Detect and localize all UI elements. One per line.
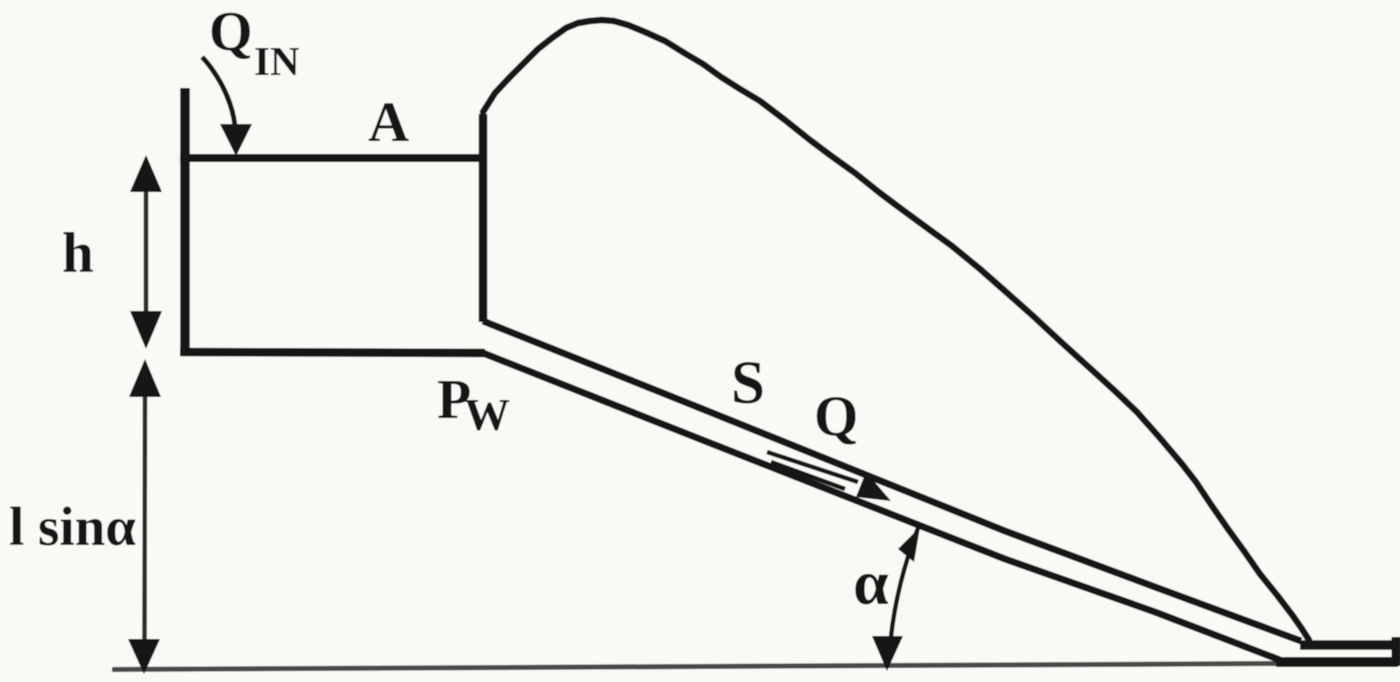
svg-text:W: W bbox=[464, 389, 510, 440]
ground line bbox=[112, 664, 1282, 670]
glacier surface curve bbox=[483, 20, 1309, 640]
bed terminus horizontal bbox=[1276, 657, 1398, 667]
l sin(alpha) dimension arrow bbox=[142, 380, 147, 652]
conduit flow arrow (discharge Q) bbox=[767, 452, 858, 482]
Q_IN inflow arrow bbox=[202, 57, 235, 126]
roof terminus horizontal bbox=[1300, 640, 1394, 650]
svg-text:h: h bbox=[62, 222, 94, 285]
glacier front wall and conduit roof line bbox=[479, 114, 488, 322]
svg-text:Q: Q bbox=[814, 385, 858, 448]
svg-text:α: α bbox=[853, 547, 889, 618]
water surface line (lake level) bbox=[180, 154, 486, 162]
alpha angle arc arrow bbox=[889, 528, 918, 662]
h dimension arrow bbox=[144, 170, 149, 335]
conduit roof slope line bbox=[483, 321, 1301, 641]
svg-text:S: S bbox=[731, 350, 765, 417]
reservoir left wall bbox=[180, 88, 190, 356]
svg-text:IN: IN bbox=[254, 38, 300, 84]
reservoir bottom and bed slope line bbox=[180, 352, 485, 353]
bed slope line bbox=[483, 353, 1280, 660]
svg-text:Q: Q bbox=[209, 1, 253, 63]
svg-text:l sinα: l sinα bbox=[9, 496, 136, 557]
svg-text:A: A bbox=[368, 91, 409, 154]
terminus step nub bbox=[1392, 637, 1400, 666]
